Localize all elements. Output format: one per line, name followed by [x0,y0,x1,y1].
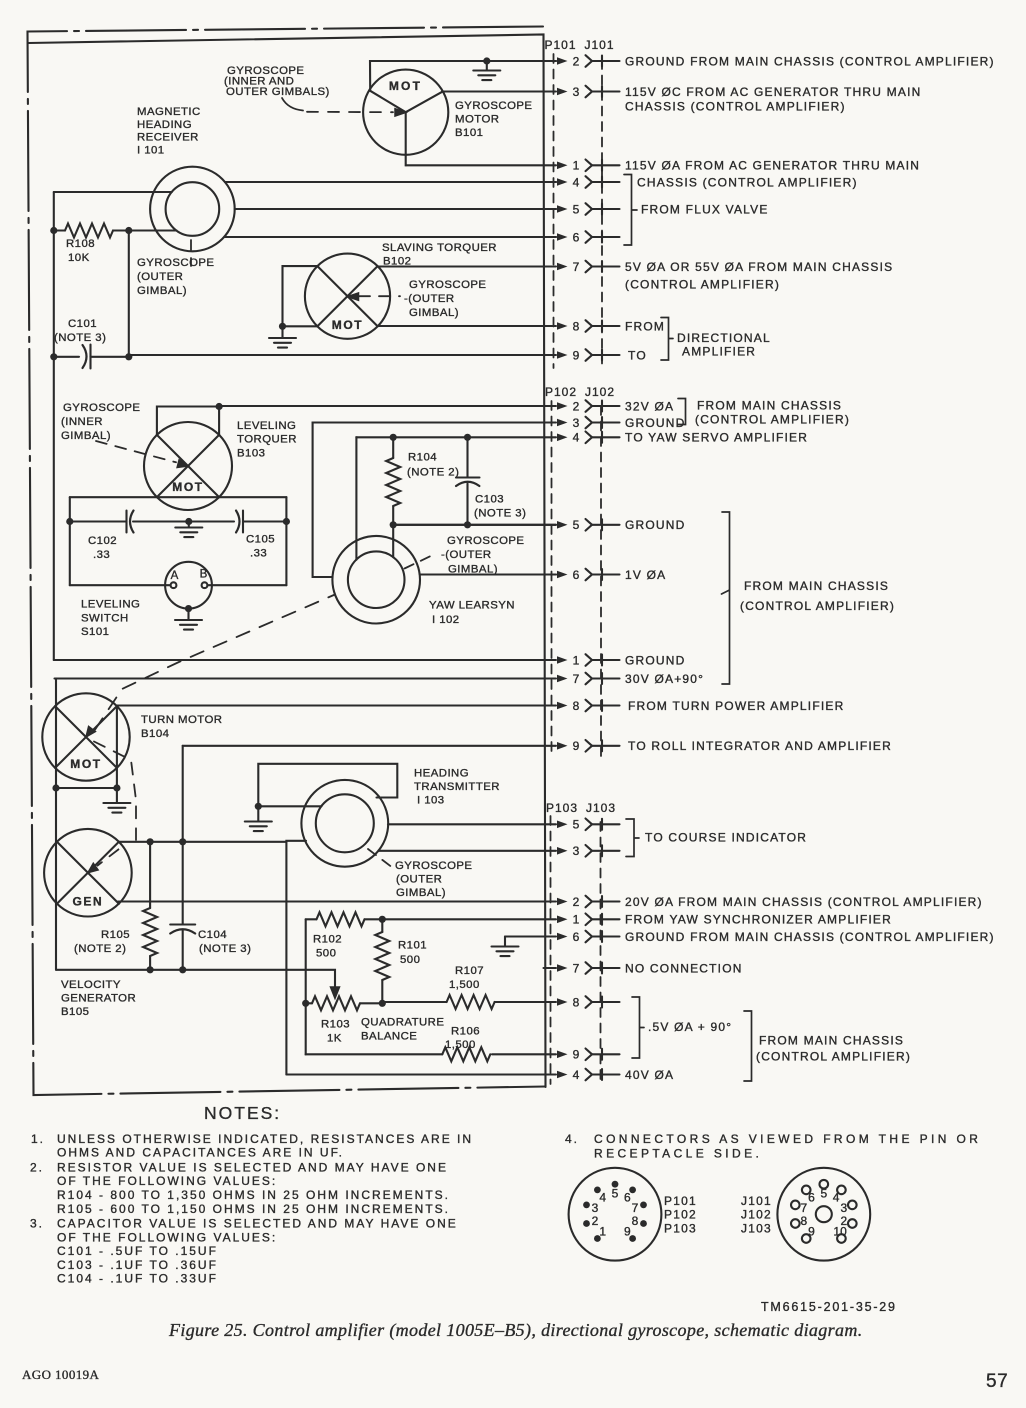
svg-text:RECEIVER: RECEIVER [137,132,199,144]
svg-text:UNLESS OTHERWISE INDICATED, RE: UNLESS OTHERWISE INDICATED, RESISTANCES … [57,1132,473,1146]
svg-text:C104 - .1UF TO .33UF: C104 - .1UF TO .33UF [57,1272,218,1286]
svg-text:GROUND: GROUND [625,416,686,430]
svg-text:8: 8 [800,1214,807,1228]
P101 pin 3 wire [442,90,556,92]
svg-text:500: 500 [400,954,420,966]
svg-text:4: 4 [599,1190,606,1204]
svg-text:LEVELING: LEVELING [237,420,296,432]
wire B101 down to pin1 row [405,155,407,166]
svg-text:MOT: MOT [172,480,203,494]
P102 pin 1 wire [54,659,556,661]
ground stub for P103 pin6 [504,937,506,947]
svg-text:I 101: I 101 [137,145,165,157]
svg-text:CAPACITOR VALUE IS SELECTED AN: CAPACITOR VALUE IS SELECTED AND MAY HAVE… [57,1217,458,1231]
svg-text:FROM MAIN CHASSIS: FROM MAIN CHASSIS [759,1034,904,1048]
svg-text:(NOTE 2): (NOTE 2) [407,467,459,479]
svg-text:40V ØA: 40V ØA [625,1068,674,1082]
svg-text:R101: R101 [398,940,427,952]
R104 C103 top rail to pin4 [355,437,358,560]
resistor R107 on pin8 wire [382,1001,446,1003]
unit box solid border (top and right) [29,35,546,1088]
svg-text:P102: P102 [545,385,577,399]
svg-text:CHASSIS (CONTROL AMPLIFIER): CHASSIS (CONTROL AMPLIFIER) [637,176,858,190]
svg-text:TO ROLL INTEGRATOR AND AMPLI: TO ROLL INTEGRATOR AND AMPLIFIER [628,739,892,753]
magnetic heading receiver I101 [150,167,235,252]
svg-text:9: 9 [573,348,580,362]
P103 pin 9 wire [492,1053,556,1055]
svg-text:.33: .33 [250,548,267,560]
svg-text:OUTER GIMBALS): OUTER GIMBALS) [226,86,330,98]
P102 pin 6 wire [420,573,556,575]
svg-text:P102: P102 [664,1208,697,1222]
svg-text:B: B [200,569,208,581]
svg-text:NOTES:: NOTES: [204,1103,281,1123]
P103 pin 5 wire [388,823,556,825]
svg-text:(INNER: (INNER [61,416,103,428]
svg-text:R105 - 600 TO 1,150 OHMS IN 25: R105 - 600 TO 1,150 OHMS IN 25 OHM INCRE… [57,1202,450,1216]
svg-text:6: 6 [573,930,580,944]
callout hook from label to dashed line [282,98,303,111]
svg-text:2.: 2. [30,1161,44,1175]
svg-text:2: 2 [573,399,580,413]
svg-text:9: 9 [624,1224,631,1238]
dashed mechanical line into B101 [307,111,393,113]
P101 dashed line [553,54,555,368]
svg-text:P103: P103 [664,1221,697,1235]
svg-text:J101: J101 [585,38,615,52]
svg-text:TURN MOTOR: TURN MOTOR [141,714,223,726]
capacitor row C102 C105 [70,520,126,522]
P103 pin 6 wire [505,935,556,937]
pot wiper arrow [331,987,340,999]
svg-text:5: 5 [820,1186,827,1200]
receiver left wire [54,191,172,193]
B104 bottom wire [56,787,117,789]
P102 pin 8 wire [117,704,556,706]
P103 dashed line [550,816,552,1084]
svg-text:GYROSCOPE: GYROSCOPE [409,279,486,291]
svg-text:1: 1 [599,1224,606,1238]
svg-text:J102: J102 [585,385,615,399]
svg-text:GIMBAL): GIMBAL) [61,430,111,442]
svg-text:4: 4 [573,1068,580,1082]
svg-text:32V ØA: 32V ØA [625,399,674,413]
svg-text:R106: R106 [451,1026,480,1038]
svg-text:8: 8 [632,1214,639,1228]
svg-text:30V ØA+90°: 30V ØA+90° [625,672,704,686]
I103 lower-left wire and pin4 vertical [286,841,306,1075]
svg-text:7: 7 [573,961,580,975]
svg-text:1.: 1. [31,1132,45,1146]
svg-text:I 103: I 103 [417,795,445,807]
svg-text:GYROSCOPE: GYROSCOPE [455,100,532,112]
svg-text:(CONTROL AMPLIFIER): (CONTROL AMPLIFIER) [740,599,895,613]
turn motor B104 [42,693,129,780]
resistor R104 [392,437,394,458]
svg-text:I 102: I 102 [432,614,460,626]
svg-text:RESISTOR VALUE IS SELECTED AND: RESISTOR VALUE IS SELECTED AND MAY HAVE … [57,1161,448,1175]
svg-text:GENERATOR: GENERATOR [61,993,136,1005]
P102 pin 4 wire [356,436,556,438]
svg-text:P101: P101 [545,38,577,52]
svg-text:RECEPTACLE SIDE.: RECEPTACLE SIDE. [594,1147,762,1161]
B105 top wire [119,841,287,843]
svg-text:GROUND FROM MAIN CHASSIS (CONT: GROUND FROM MAIN CHASSIS (CONTROL AMPLIF… [625,930,995,944]
svg-text:115V ØA FROM AC GENERATOR THR: 115V ØA FROM AC GENERATOR THRU MAIN [625,159,920,173]
svg-text:QUADRATURE: QUADRATURE [361,1017,444,1029]
svg-text:115V ØC FROM AC GENERATOR THR: 115V ØC FROM AC GENERATOR THRU MAIN [625,85,921,99]
svg-text:1: 1 [573,159,580,173]
svg-text:(OUTER: (OUTER [137,271,183,283]
svg-text:10K: 10K [68,252,90,264]
svg-text:OHMS AND CAPACITANCES ARE IN U: OHMS AND CAPACITANCES ARE IN UF. [57,1146,344,1160]
svg-text:2: 2 [573,895,580,909]
svg-text:6: 6 [573,230,580,244]
svg-text:TO YAW SERVO AMPLIFIER: TO YAW SERVO AMPLIFIER [625,431,808,445]
potentiometer R103 [306,1002,312,1004]
svg-text:MOT: MOT [389,79,422,93]
P101 pin 1 wire [406,164,556,166]
svg-text:P101: P101 [664,1194,697,1208]
svg-text:3: 3 [573,85,580,99]
P102 pin 7 wire [56,677,556,679]
outer bracket from main chassis P103 [744,1011,752,1081]
J101 dashed line [601,60,603,368]
svg-text:B102: B102 [383,256,411,268]
svg-text:GROUND: GROUND [625,518,686,532]
svg-text:GYROSCOPE: GYROSCOPE [137,257,214,269]
svg-text:CONNECTORS AS VIEWED FROM THE: CONNECTORS AS VIEWED FROM THE PIN OR [594,1132,981,1146]
svg-text:R103: R103 [321,1019,350,1031]
velocity generator B105 [44,829,132,917]
svg-text:3: 3 [573,844,580,858]
svg-text:9: 9 [808,1224,815,1238]
B104 ground [116,788,118,803]
B102 dashed gimbal line [359,295,400,297]
svg-text:(CONTROL AMPLIFIER): (CONTROL AMPLIFIER) [756,1050,911,1064]
R102 drop to R106 row [305,1003,307,1054]
resistor R105 [149,842,151,908]
svg-text:GYROSCOPE: GYROSCOPE [395,860,472,872]
J102 dashed line [600,406,602,757]
svg-text:R104: R104 [408,452,437,464]
bracket pins 8-9 half volt [632,997,644,1058]
svg-text:-(OUTER: -(OUTER [441,549,492,561]
left leg down to cap row [69,497,71,521]
svg-text:3: 3 [573,416,580,430]
svg-text:7: 7 [800,1201,807,1215]
P101 pin 4 wire [225,181,556,183]
svg-text:5V ØA OR 55V ØA FROM MAIN CHA: 5V ØA OR 55V ØA FROM MAIN CHASSIS [625,260,893,274]
svg-text:FROM MAIN CHASSIS: FROM MAIN CHASSIS [697,399,842,413]
svg-text:9: 9 [573,739,580,753]
svg-text:4.: 4. [565,1132,579,1146]
svg-text:9: 9 [573,1048,580,1062]
svg-text:(NOTE 3): (NOTE 3) [474,508,526,520]
svg-text:MOTOR: MOTOR [455,114,499,126]
svg-text:MOT: MOT [70,757,101,771]
svg-text:5: 5 [573,518,580,532]
svg-text:B101: B101 [455,127,483,139]
svg-text:FROM MAIN CHASSIS: FROM MAIN CHASSIS [744,579,889,593]
svg-text:6: 6 [808,1190,815,1204]
B103 bottom wire [70,496,287,498]
resistor R106 on pin9 wire [306,1053,443,1055]
svg-text:FROM TURN POWER AMPLIFIER: FROM TURN POWER AMPLIFIER [628,699,844,713]
svg-text:2: 2 [573,54,580,68]
svg-text:10: 10 [833,1224,847,1238]
svg-text:J103: J103 [741,1221,772,1235]
bracket pins 5-3 course indicator [626,819,639,857]
P102 pin 2 wire [221,405,556,407]
right leg down to cap row [285,497,287,521]
wire C101 node to pin9 row [128,355,131,357]
svg-text:S101: S101 [81,626,109,638]
B104 right vertical to pin8 row [116,706,118,788]
svg-text:Figure 25. Control amplifier: Figure 25. Control amplifier (model 1005… [168,1320,863,1341]
bracket pins 8-9 directional amplifier [661,318,673,361]
svg-text:MOT: MOT [332,318,363,332]
svg-text:4: 4 [573,431,580,445]
svg-text:4: 4 [573,175,580,189]
svg-text:GIMBAL): GIMBAL) [448,564,498,576]
svg-text:C103 - .1UF TO .36UF: C103 - .1UF TO .36UF [57,1258,218,1272]
svg-text:1K: 1K [327,1033,342,1045]
svg-text:B104: B104 [141,728,169,740]
svg-text:GIMBAL): GIMBAL) [409,307,459,319]
svg-text:DIRECTIONAL: DIRECTIONAL [677,331,771,345]
S101 left wire [69,522,71,586]
svg-text:TO COURSE INDICATOR: TO COURSE INDICATOR [645,831,807,845]
big bracket from main chassis [722,512,730,684]
wire R108 node down to C101 [128,231,130,357]
receiver lower-left wire through R108 node [129,229,177,231]
svg-text:LEVELING: LEVELING [81,599,140,611]
svg-text:5: 5 [573,202,580,216]
bottom rail to pin5 [393,524,556,526]
svg-text:6: 6 [573,568,580,582]
svg-text:1: 1 [573,913,580,927]
svg-text:R102: R102 [313,934,342,946]
svg-text:(CONTROL AMPLIFIER): (CONTROL AMPLIFIER) [695,413,850,427]
S101 ground [185,605,192,612]
I102 left loop up to pin3 row [313,423,333,578]
svg-text:1V ØA: 1V ØA [625,568,666,582]
P101 pin 5 wire [235,208,556,210]
P103 pin 7 wire [544,967,557,969]
svg-text:FROM FLUX VALVE: FROM FLUX VALVE [641,203,769,217]
svg-text:5: 5 [573,818,580,832]
svg-text:TRANSMITTER: TRANSMITTER [414,781,500,793]
svg-text:HEADING: HEADING [414,768,469,780]
B102 left loop and ground [283,266,318,326]
svg-text:HEADING: HEADING [137,119,192,131]
yaw learsyn I102 [332,536,420,624]
svg-text:FROM YAW SYNCHRONIZER AMPLIFI: FROM YAW SYNCHRONIZER AMPLIFIER [625,913,892,927]
S101 right wire [208,584,287,586]
svg-text:C101: C101 [68,318,97,330]
svg-text:A: A [171,570,179,582]
leveling switch S101 [165,562,212,609]
receptacle connector face J101-J103 [777,1168,870,1261]
svg-text:1,500: 1,500 [445,1039,476,1051]
resistor R101 [381,919,383,932]
svg-text:GIMBAL): GIMBAL) [396,887,446,899]
I103 dashed gimbal callout [368,849,391,867]
gyroscope motor B101 [363,70,448,155]
svg-text:6: 6 [624,1190,631,1204]
P102 dashed line [551,401,553,757]
svg-text:AMPLIFIER: AMPLIFIER [682,345,756,359]
P103 pin 1 wire [382,918,556,920]
dashed line to B103 center [96,441,176,462]
left vertical from pin7 row through B104 B105 [55,679,57,970]
svg-text:FROM: FROM [625,319,665,333]
svg-text:GYROSCOPE: GYROSCOPE [63,402,140,414]
svg-text:P103: P103 [546,801,578,815]
svg-text:57: 57 [986,1371,1008,1392]
receiver right wires to pins 4-6 [225,181,556,183]
svg-text:R108: R108 [66,238,95,250]
plug connector face P101-P103 [569,1168,662,1261]
svg-text:.33: .33 [93,549,110,561]
P102 pin 3 wire [313,421,556,423]
receiver dashed gimbal stub [190,240,192,266]
ground at center of cap row [188,522,190,528]
svg-text:B105: B105 [61,1006,89,1018]
dashed link B104 to B105 [94,742,136,841]
svg-text:J103: J103 [586,801,616,815]
P101 pin 6 wire [225,236,557,238]
svg-text:SLAVING TORQUER: SLAVING TORQUER [382,242,497,254]
svg-text:TO: TO [628,348,647,362]
svg-text:J102: J102 [741,1208,772,1222]
bracket pins 4-6 flux valve [624,175,637,246]
svg-text:TORQUER: TORQUER [237,434,297,446]
I103 ground [257,806,259,821]
svg-text:B103: B103 [237,447,265,459]
svg-text:.5V ØA + 90°: .5V ØA + 90° [648,1020,732,1034]
svg-text:2: 2 [592,1214,599,1228]
left ground bus vertical [53,192,55,660]
svg-text:AGO 10019A: AGO 10019A [22,1367,100,1382]
resistor R108 [54,229,65,231]
svg-text:3.: 3. [30,1217,44,1231]
wire B101 upper-left to pin2 row [370,61,556,91]
svg-text:OF THE FOLLOWING VALUES:: OF THE FOLLOWING VALUES: [57,1230,277,1244]
I103 top loop to ground [258,764,397,807]
svg-text:3: 3 [840,1201,847,1215]
pin9 P102 wire corner down to B105 top wire [182,746,184,842]
svg-text:(NOTE 2): (NOTE 2) [74,943,126,955]
svg-text:1,500: 1,500 [449,979,480,991]
outer case dash-dot border [28,27,546,1096]
svg-text:(OUTER: (OUTER [396,874,442,886]
svg-text:4: 4 [833,1190,840,1204]
svg-text:(NOTE 3): (NOTE 3) [199,943,251,955]
svg-text:J101: J101 [741,1194,772,1208]
svg-text:C102: C102 [88,535,117,547]
svg-text:1: 1 [573,653,580,667]
P103 pin 4 wire [286,1073,556,1075]
svg-text:NO CONNECTION: NO CONNECTION [625,961,743,975]
svg-text:8: 8 [573,995,580,1009]
P103 pin 3 wire [378,850,556,852]
ground from B101 top wire [483,57,490,64]
I103 left wire into inner circle [258,805,321,807]
P102 pin 5 wire [393,524,556,526]
svg-text:GYROSCOPE: GYROSCOPE [447,535,524,547]
svg-text:R105: R105 [101,929,130,941]
svg-text:7: 7 [632,1201,639,1215]
svg-text:C105: C105 [246,534,275,546]
J103 dashed line [600,822,602,1084]
bottom wire of velocity generator [56,970,335,987]
P101 pin 8 wire [378,325,556,327]
svg-text:7: 7 [573,260,580,274]
slaving torquer motor B102 [305,254,390,339]
svg-text:5: 5 [612,1186,619,1200]
svg-text:20V ØA FROM MAIN CHASSIS (CONT: 20V ØA FROM MAIN CHASSIS (CONTROL AMPLIF… [625,895,983,909]
long dashed mechanical line B104 to I102 [95,595,335,731]
R104 leg into learsyn [392,525,394,557]
leveling torquer B103 [144,422,232,510]
svg-text:C103: C103 [475,494,504,506]
P101 pin 7 wire [378,265,556,267]
capacitor C103 [466,437,468,477]
svg-text:GROUND FROM MAIN CHASSIS (CONT: GROUND FROM MAIN CHASSIS (CONTROL AMPLIF… [625,54,995,68]
svg-text:R104 - 800 TO 1,350 OHMS IN 25: R104 - 800 TO 1,350 OHMS IN 25 OHM INCRE… [57,1188,450,1202]
P103 pin 8 wire [495,1001,556,1003]
B103 top wires to pin2 row [157,407,219,435]
I102 right wire to pin6 [420,573,556,575]
capacitor C104 [182,842,184,925]
svg-text:8: 8 [573,699,580,713]
svg-text:500: 500 [316,948,336,960]
resistor R102 and left drop [306,918,317,920]
I102 dashed gimbal callout [405,554,437,569]
svg-text:YAW LEARSYN: YAW LEARSYN [429,600,515,612]
svg-text:(CONTROL AMPLIFIER): (CONTROL AMPLIFIER) [625,278,780,292]
svg-text:-(OUTER: -(OUTER [404,293,455,305]
svg-text:GEN: GEN [72,895,103,909]
P103 pin 2 wire [118,900,556,902]
svg-text:C104: C104 [198,929,227,941]
svg-text:3: 3 [592,1201,599,1215]
svg-text:BALANCE: BALANCE [361,1031,417,1043]
svg-text:8: 8 [573,319,580,333]
bracket pins 2-3 from main chassis [678,399,686,425]
svg-text:C101 - .5UF TO .15UF: C101 - .5UF TO .15UF [57,1244,218,1258]
svg-text:GIMBAL): GIMBAL) [137,285,187,297]
P101 pin 9 wire [129,354,556,356]
svg-text:(NOTE 3): (NOTE 3) [54,332,106,344]
svg-text:TM6615-201-35-29: TM6615-201-35-29 [761,1300,897,1314]
svg-text:VELOCITY: VELOCITY [61,979,121,991]
heading transmitter I103 [301,780,388,867]
svg-text:7: 7 [573,672,580,686]
P102 pin 9 wire [183,745,556,747]
svg-text:OF THE FOLLOWING VALUES:: OF THE FOLLOWING VALUES: [57,1174,277,1188]
svg-text:SWITCH: SWITCH [81,612,129,624]
svg-text:CHASSIS (CONTROL AMPLIFIER): CHASSIS (CONTROL AMPLIFIER) [625,100,846,114]
svg-text:R107: R107 [455,965,484,977]
P101 pin 2 wire [370,60,556,62]
svg-text:GROUND: GROUND [625,653,686,667]
svg-text:MAGNETIC: MAGNETIC [137,106,201,118]
